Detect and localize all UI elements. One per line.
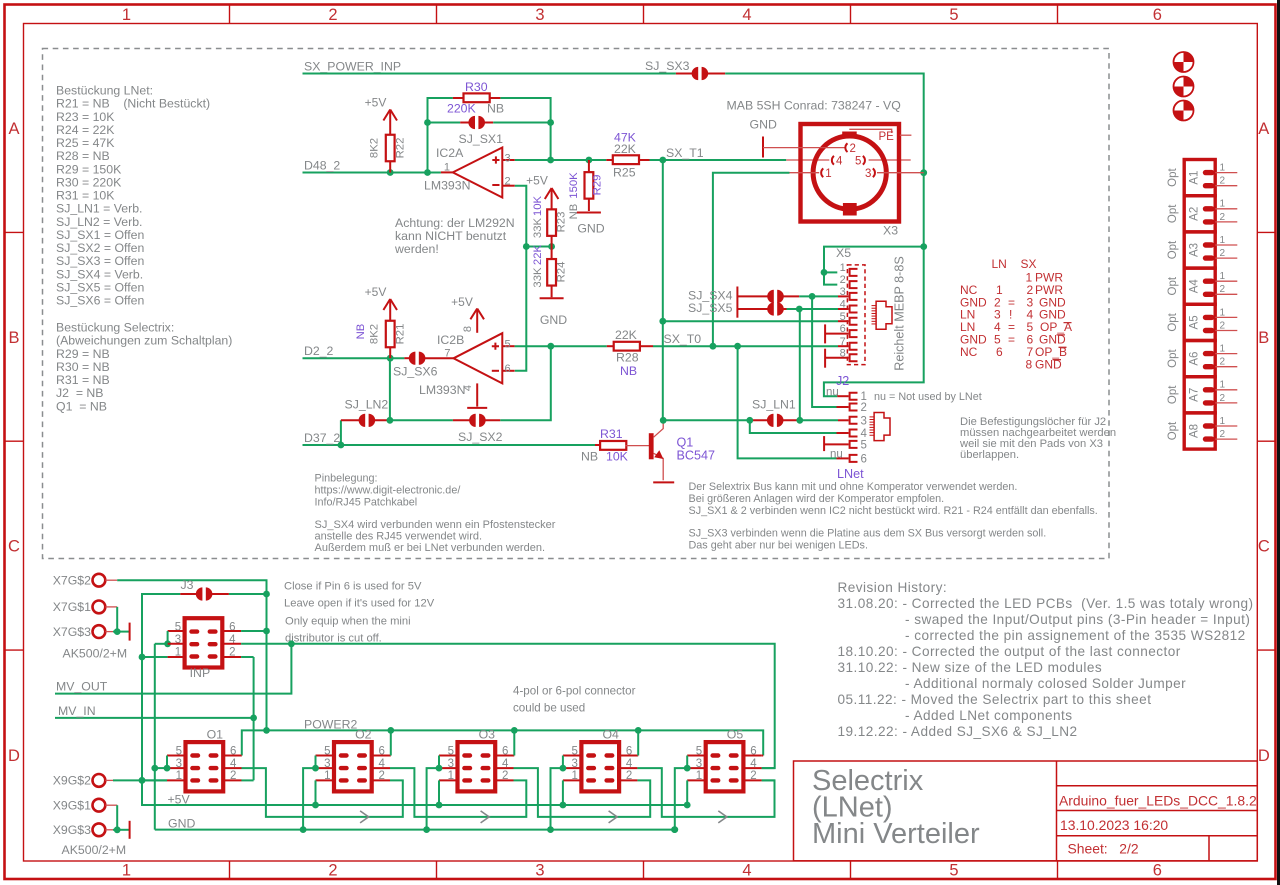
svg-text:SJ_SX3: SJ_SX3 xyxy=(645,59,690,73)
svg-text:1: 1 xyxy=(1220,307,1226,318)
svg-text:NB: NB xyxy=(620,364,637,378)
junction O4 POWER2 xyxy=(635,727,642,734)
connector A2 xyxy=(1184,196,1237,232)
svg-text:R29: R29 xyxy=(592,175,604,196)
svg-text:33K: 33K xyxy=(532,217,544,238)
wire SJ_LN2 branch xyxy=(340,420,342,445)
svg-text:Mini Verteiler: Mini Verteiler xyxy=(812,818,980,850)
O4 left pin stub xyxy=(563,767,583,769)
O4 left pin stub xyxy=(563,779,583,781)
svg-text:SJ_SX3 = Offen: SJ_SX3 = Offen xyxy=(56,254,144,268)
svg-text:2: 2 xyxy=(861,402,867,414)
svg-text:22K: 22K xyxy=(614,142,637,156)
wire INP pin2 riser to MV_IN xyxy=(253,657,255,780)
svg-text:5: 5 xyxy=(949,6,958,24)
svg-text:nu = Not used by LNet: nu = Not used by LNet xyxy=(874,391,982,403)
svg-text:13.10.2023 16:20: 13.10.2023 16:20 xyxy=(1060,817,1168,833)
junction X5 pin3 xyxy=(809,293,816,300)
svg-text:AK500/2+M: AK500/2+M xyxy=(62,843,127,857)
svg-text:Leave open if it's used for 12: Leave open if it's used for 12V xyxy=(284,598,435,610)
solder jumper SJ_SX4 xyxy=(737,295,768,297)
connector O3 xyxy=(448,742,509,791)
svg-text:2: 2 xyxy=(1220,248,1226,259)
O1 pin6 stub xyxy=(223,755,242,757)
svg-text:SJ_SX6 = Offen: SJ_SX6 = Offen xyxy=(56,294,144,308)
pad X7G$3 stub xyxy=(105,631,113,633)
svg-text:kann NICHT benutzt: kann NICHT benutzt xyxy=(395,229,507,243)
solder jumper SJ_LN1 xyxy=(750,419,769,421)
svg-text:6: 6 xyxy=(1153,6,1162,24)
svg-text:3: 3 xyxy=(840,286,846,298)
O1 left pin stub xyxy=(167,755,187,757)
X3 top notch xyxy=(842,132,857,139)
wire SX_T1 riser to pin5 and Q1 xyxy=(662,160,664,420)
frame column tick xyxy=(850,5,852,24)
svg-text:3: 3 xyxy=(535,6,544,24)
wire MV_OUT riser xyxy=(55,644,291,694)
junction X5 pin1 xyxy=(821,269,828,276)
junction INP pin6 xyxy=(263,628,270,635)
svg-text:(Abweichungen zum Schaltplan): (Abweichungen zum Schaltplan) xyxy=(56,334,232,348)
O1 right pin stub xyxy=(222,755,241,757)
connector O5 xyxy=(696,742,757,791)
resistor R29 xyxy=(588,160,590,173)
INP pin1 stub xyxy=(168,656,186,658)
connector O1 xyxy=(176,742,237,791)
frame column tick xyxy=(643,5,645,24)
svg-text:could be used: could be used xyxy=(513,702,585,715)
junction O2 +5V xyxy=(312,802,319,809)
X3 pin5 mark xyxy=(863,156,865,165)
svg-text:SJ_SX4 wird verbunden wenn ein: SJ_SX4 wird verbunden wenn ein Pfostenst… xyxy=(315,519,556,531)
svg-text:R30: R30 xyxy=(465,80,488,94)
svg-text:5: 5 xyxy=(949,862,958,880)
resistor R25 xyxy=(606,159,613,161)
wire X5 pin1 spur xyxy=(824,271,837,273)
svg-text:IC2A: IC2A xyxy=(436,146,464,160)
svg-text:X7G$2: X7G$2 xyxy=(53,573,91,587)
wire X5 pin5 row xyxy=(663,320,838,322)
junction R21 bottom xyxy=(387,355,394,362)
junction X9G$2 xyxy=(139,777,146,784)
wire net MV_IN xyxy=(55,717,254,719)
svg-text:31.10.22: - New size of the LE: 31.10.22: - New size of the LED modules xyxy=(838,660,1103,675)
svg-text:2: 2 xyxy=(1220,212,1226,223)
X5 pin 7 xyxy=(850,343,858,350)
svg-text:O2: O2 xyxy=(355,727,372,741)
wire INP pin2 row xyxy=(241,656,254,658)
wire O4 pin1 riser to +5V xyxy=(562,780,564,805)
svg-text:2: 2 xyxy=(840,274,846,286)
pad X9G$2 stub xyxy=(105,779,113,781)
wire net D37_2 xyxy=(303,444,596,446)
IC2B pin 6 stub xyxy=(502,370,514,372)
svg-text:MV_OUT: MV_OUT xyxy=(56,680,108,694)
svg-text:nu: nu xyxy=(826,386,839,398)
junction X9G$3 xyxy=(114,826,121,833)
svg-text:A1: A1 xyxy=(1189,171,1201,185)
svg-text:R31: R31 xyxy=(600,427,623,441)
X3 pin5 line xyxy=(869,159,911,161)
svg-text:Achtung: der LM292N: Achtung: der LM292N xyxy=(395,216,515,230)
INP pin6 stub xyxy=(222,630,241,632)
resistor R31 xyxy=(595,444,601,446)
svg-text:R29 = NB: R29 = NB xyxy=(56,347,110,361)
power +5V at R23 xyxy=(551,188,553,209)
IC2B plus mark xyxy=(492,343,499,350)
svg-text:1: 1 xyxy=(1220,199,1226,210)
wire SJ_LN2 to D2_2 riser xyxy=(389,358,391,420)
junction R22 bottom xyxy=(387,169,394,176)
junction IC2B pin5 xyxy=(547,343,554,350)
svg-text:- swaped the Input/Output pins: - swaped the Input/Output pins (3-Pin he… xyxy=(905,612,1250,627)
svg-text:1: 1 xyxy=(122,862,131,880)
wire O2 pin4 chain to O3 pin2 xyxy=(390,768,526,817)
connector A5 xyxy=(1184,304,1237,340)
ground below IC2B xyxy=(467,407,487,409)
X3 pin3 line xyxy=(877,172,924,174)
wire X9G$1 to X9G$3 xyxy=(116,805,118,830)
wire O2 pin6 drop from POWER2 xyxy=(389,755,392,757)
wire SJ_SX5 riser xyxy=(799,309,801,420)
ground below R24 xyxy=(540,297,564,299)
solder jumper SJ_SX6 xyxy=(404,357,410,359)
wire O1 pin3 row xyxy=(155,767,167,769)
svg-text:+5V: +5V xyxy=(451,295,473,309)
O5 pin6 stub extra xyxy=(762,755,764,757)
wire X3 pin1 riser xyxy=(713,173,790,347)
svg-text:GND: GND xyxy=(168,816,195,830)
svg-text:J2 = NB: J2 = NB xyxy=(56,386,104,400)
INP pin5-pin3 tie xyxy=(167,631,169,644)
svg-text:Das geht aber nur bei wenigen: Das geht aber nur bei wenigen LEDs. xyxy=(689,540,868,552)
svg-text:4: 4 xyxy=(836,156,843,168)
fiducial mark 2 xyxy=(1174,77,1194,97)
junction SJ_SX1 right xyxy=(547,119,554,126)
svg-text:R24: R24 xyxy=(556,262,568,283)
svg-text:6: 6 xyxy=(1153,862,1162,880)
svg-text:nu: nu xyxy=(830,448,843,460)
power +5V at IC2B xyxy=(470,309,484,320)
connector O2 xyxy=(324,742,385,791)
svg-text:Q1 = NB: Q1 = NB xyxy=(56,399,107,413)
J2 pin3 stub xyxy=(838,419,849,421)
O1 left pin stub xyxy=(167,767,187,769)
junction R29 top xyxy=(586,157,593,164)
solder jumper SJ_LN2 xyxy=(341,419,360,421)
wire net SX_POWER_INP right run xyxy=(725,74,924,397)
svg-text:19.12.22: - Added SJ_SX6 & SJ_: 19.12.22: - Added SJ_SX6 & SJ_LN2 xyxy=(838,724,1078,739)
svg-text:B: B xyxy=(1258,329,1269,347)
wire INP pin4 long line xyxy=(241,644,775,768)
wire X7G$2 to J3 xyxy=(117,580,266,594)
X3 ground Tbar xyxy=(762,137,764,158)
connector O4 xyxy=(571,742,632,791)
svg-text:1: 1 xyxy=(1220,235,1226,246)
IC2A minus mark xyxy=(492,184,499,186)
wire X9G$2 row xyxy=(113,779,167,781)
wire O4 pin3 row to GND riser xyxy=(551,768,563,830)
connector INP xyxy=(175,618,236,667)
O4 right pin stub xyxy=(618,767,637,769)
O2 right pin stub xyxy=(371,767,390,769)
svg-text:NC: NC xyxy=(960,345,978,359)
resistor R24 xyxy=(551,247,553,260)
solder jumper SJ_SX5 xyxy=(737,308,768,310)
svg-text:+5V: +5V xyxy=(168,792,191,806)
resistor R30 xyxy=(453,97,464,99)
wire O3 pin3 row to GND riser xyxy=(427,768,439,830)
X3 pin4 mark xyxy=(832,156,834,165)
svg-text:7: 7 xyxy=(444,348,450,360)
junction MV_OUT xyxy=(288,640,295,647)
svg-text:O1: O1 xyxy=(207,727,224,741)
junction O3 +5V xyxy=(436,802,443,809)
junction SJ_LN1 right xyxy=(796,417,803,424)
svg-text:1: 1 xyxy=(444,162,450,174)
junction MV_IN xyxy=(250,715,257,722)
svg-text:22K: 22K xyxy=(615,328,638,342)
transistor Q1 xyxy=(649,433,654,459)
connector A1 xyxy=(1184,160,1237,196)
J2 pin2 stub xyxy=(837,406,849,408)
svg-text:Sheet: 2/2: Sheet: 2/2 xyxy=(1068,841,1139,857)
svg-text:2: 2 xyxy=(1220,393,1226,404)
wire O1 pin1 row xyxy=(142,779,167,781)
wire J2 pin6 dropper xyxy=(738,346,837,458)
J2 pin 1 xyxy=(850,393,858,400)
wire X9G$3 row xyxy=(113,829,129,831)
junction IC2A output node xyxy=(547,157,554,164)
pad X7G$1 stub xyxy=(105,606,117,608)
wire SJ_LN2 to SJ_SX2 xyxy=(390,419,453,421)
pad X9G$1 xyxy=(93,799,106,812)
svg-text:R23: R23 xyxy=(556,212,568,233)
svg-text:1: 1 xyxy=(1220,163,1226,174)
svg-text:J3: J3 xyxy=(181,578,194,592)
connector X5 pin field xyxy=(847,265,865,365)
J2 pin 3 xyxy=(850,417,858,424)
connector A7 xyxy=(1184,377,1237,413)
wire O5 pin3 row to GND riser xyxy=(675,768,687,830)
wire X7G$1 to X7G$3 xyxy=(116,607,118,632)
svg-text:Arduino_fuer_LEDs_DCC_1.8.2: Arduino_fuer_LEDs_DCC_1.8.2 xyxy=(1059,793,1257,809)
svg-text:D2_2: D2_2 xyxy=(304,344,334,358)
O5 right pin stub xyxy=(742,779,761,781)
svg-text:SJ_SX5: SJ_SX5 xyxy=(688,301,733,315)
svg-text:- corrected the pin assignemen: - corrected the pin assignement of the 3… xyxy=(905,628,1246,643)
table LN SX pinout xyxy=(960,257,1072,372)
svg-text:distributor is cut off.: distributor is cut off. xyxy=(285,633,382,645)
X5 pin7 stub xyxy=(838,345,849,347)
X5 pin 5 xyxy=(850,318,858,325)
solder jumper SJ_SX1 xyxy=(460,122,470,124)
svg-text:LM393N: LM393N xyxy=(419,383,465,397)
junction O5 pin3 tie xyxy=(684,765,691,772)
svg-text:GND: GND xyxy=(577,222,604,236)
svg-text:X3: X3 xyxy=(883,224,898,238)
IC2A pin 2 stub xyxy=(502,185,515,187)
svg-text:=: = xyxy=(1008,333,1015,347)
svg-text:O5: O5 xyxy=(727,727,744,741)
svg-text:6: 6 xyxy=(996,345,1003,359)
junction O4 GND xyxy=(547,826,554,833)
svg-text:8K2: 8K2 xyxy=(369,324,381,344)
svg-text:Reichelt MEBP 8-8S: Reichelt MEBP 8-8S xyxy=(893,256,907,371)
svg-text:1: 1 xyxy=(1220,416,1226,427)
svg-text:220K: 220K xyxy=(447,102,477,116)
svg-text:Opt: Opt xyxy=(1167,349,1179,368)
header bar SJ_SX4/SJ_SX5 xyxy=(736,287,738,318)
solder jumper J3 xyxy=(180,593,197,595)
svg-text:1: 1 xyxy=(122,6,131,24)
frame row tick xyxy=(5,440,24,442)
J2 pin1 stub xyxy=(837,395,848,397)
svg-text:SJ_SX4 = Verb.: SJ_SX4 = Verb. xyxy=(56,267,143,281)
svg-text:Außerdem muß er bei LNet verbu: Außerdem muß er bei LNet verbunden werde… xyxy=(315,542,546,554)
wire O4 pin4 chain to O5 pin2 xyxy=(637,768,774,817)
X3 PE stub xyxy=(900,134,912,136)
wire SJ_SX1 row right xyxy=(493,122,550,124)
svg-text:X9G$1: X9G$1 xyxy=(53,798,91,812)
svg-text:10K: 10K xyxy=(606,450,629,464)
svg-text:PE: PE xyxy=(879,131,895,143)
screen edge strip xyxy=(1277,0,1280,885)
svg-text:2: 2 xyxy=(1220,429,1226,440)
J2 pin5 Tbar xyxy=(823,436,825,451)
ground below R29 xyxy=(577,212,601,214)
solder jumper SJ_SX2 xyxy=(453,419,471,421)
wire O2 pin3 row to GND riser xyxy=(303,768,315,830)
O2 left pin stub xyxy=(316,755,336,757)
svg-text:A6: A6 xyxy=(1189,352,1201,366)
wire O1 pin5-pin3 tie xyxy=(166,756,168,769)
svg-text:C: C xyxy=(8,538,20,556)
wire INP pin3 to GND rail xyxy=(154,644,156,830)
X5 pin 4 xyxy=(850,306,858,313)
junction +5V INP pin1 xyxy=(139,777,146,784)
wire IC2A output row xyxy=(515,159,607,161)
pad X7G$1 xyxy=(93,601,106,614)
svg-text:8: 8 xyxy=(462,326,474,332)
wire net D2_2 xyxy=(303,357,405,359)
O3 left pin stub xyxy=(439,767,459,769)
O1 right pin stub xyxy=(222,767,241,769)
connector A8 xyxy=(1184,413,1237,449)
svg-text:R25 = 47K: R25 = 47K xyxy=(56,136,115,150)
IC2B pin 8 power line xyxy=(476,309,478,333)
junction O2 POWER2 xyxy=(387,727,394,734)
junction J3 right xyxy=(263,591,270,598)
svg-text:SX_T0: SX_T0 xyxy=(664,332,702,346)
O3 right pin stub xyxy=(494,767,513,769)
svg-text:SJ_LN2: SJ_LN2 xyxy=(345,398,389,412)
terminator X7G$3 xyxy=(129,623,131,641)
svg-text:- Additional normaly colosed S: - Additional normaly colosed Solder Jump… xyxy=(905,676,1186,691)
svg-text:R31 = 10K: R31 = 10K xyxy=(56,189,115,203)
svg-text:Opt: Opt xyxy=(1167,168,1179,187)
svg-text:X7G$3: X7G$3 xyxy=(53,625,91,639)
svg-text:10K: 10K xyxy=(532,195,544,216)
resistor R23 xyxy=(547,209,556,236)
svg-text:D48_2: D48_2 xyxy=(304,159,340,173)
svg-text:3: 3 xyxy=(861,415,867,427)
svg-text:3: 3 xyxy=(535,862,544,880)
X5 pin8 Tbar xyxy=(824,349,826,368)
wire J2 pin3 row xyxy=(800,419,838,421)
svg-text:R23 = 10K: R23 = 10K xyxy=(56,110,115,124)
svg-text:SJ_SX3 verbinden wenn die Plat: SJ_SX3 verbinden wenn die Platine aus de… xyxy=(689,527,1047,539)
O1 right pin stub xyxy=(222,779,241,781)
frame column tick xyxy=(229,5,231,24)
svg-text:R31 = NB: R31 = NB xyxy=(56,373,110,387)
junction divider mid xyxy=(523,243,530,250)
wire D48_2 to IC2A xyxy=(303,172,441,174)
wire J3 left riser xyxy=(142,594,690,805)
svg-text:Only equip when the mini: Only equip when the mini xyxy=(285,616,411,628)
dashed section outline xyxy=(43,49,1110,559)
svg-text:5: 5 xyxy=(840,311,846,323)
O5 left pin stub xyxy=(687,779,707,781)
terminator X9G$3 xyxy=(129,821,131,839)
svg-text:R29 = 150K: R29 = 150K xyxy=(56,162,122,176)
pad X9G$3 stub xyxy=(105,829,113,831)
svg-text:Opt: Opt xyxy=(1167,385,1179,404)
power +5V at R22 xyxy=(389,110,391,136)
svg-text:+5V: +5V xyxy=(365,96,387,110)
wire O5 pin1 riser to +5V xyxy=(686,780,688,805)
wire feedback loop left xyxy=(428,98,453,173)
X5 pin 3 xyxy=(850,293,858,300)
svg-text:4: 4 xyxy=(742,6,751,24)
svg-text:Opt: Opt xyxy=(1167,276,1179,295)
svg-text:R30 = NB: R30 = NB xyxy=(56,360,110,374)
wire O2 pin1 riser to +5V xyxy=(315,780,317,805)
svg-text:7: 7 xyxy=(840,336,846,348)
svg-text:MV_IN: MV_IN xyxy=(58,704,96,718)
wire collector to SJ_LN1 row xyxy=(663,419,750,421)
svg-text:R22: R22 xyxy=(395,138,407,159)
junction loop left xyxy=(424,169,431,176)
wire X7G$3 row xyxy=(113,631,129,633)
svg-text:werden!: werden! xyxy=(394,242,439,256)
O4 right pin stub xyxy=(618,779,637,781)
connector X3 body xyxy=(801,124,900,222)
svg-text:3: 3 xyxy=(865,168,871,180)
O4 left pin stub xyxy=(563,755,583,757)
svg-text:5: 5 xyxy=(505,339,511,351)
svg-text:IC2B: IC2B xyxy=(437,333,464,347)
J2 pin 4 xyxy=(850,430,858,437)
svg-text:X9G$2: X9G$2 xyxy=(53,774,91,788)
svg-text:BC547: BC547 xyxy=(677,449,716,463)
svg-text:anstelle des RJ45 verwendet wi: anstelle des RJ45 verwendet wird. xyxy=(315,531,483,543)
junction SJ_LN2 right xyxy=(387,417,394,424)
svg-text:5: 5 xyxy=(861,439,867,451)
svg-text:R25: R25 xyxy=(613,166,636,180)
svg-text:4: 4 xyxy=(861,428,868,440)
svg-text:B: B xyxy=(8,329,19,347)
O5 right pin stub xyxy=(742,767,761,769)
svg-text:A8: A8 xyxy=(1189,424,1201,438)
pad X9G$2 xyxy=(93,774,106,787)
IC2B pin 4 ground line xyxy=(476,383,478,406)
wire feedback loop right xyxy=(500,98,550,160)
svg-text:https://www.digit-electronic.d: https://www.digit-electronic.de/ xyxy=(315,485,461,497)
pad X9G$1 stub xyxy=(105,804,117,806)
X5 pin3 stub xyxy=(838,295,849,297)
IC2A plus mark xyxy=(492,156,499,163)
